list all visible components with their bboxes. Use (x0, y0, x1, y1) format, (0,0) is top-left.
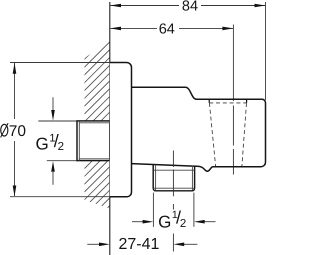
hidden line cone left (209, 103, 215, 166)
extension line holder center (64) (232, 25, 234, 102)
label O70 (1, 123, 9, 137)
arrow inlet bottom (up) (52, 172, 54, 185)
arrowhead 64 right (222, 27, 233, 31)
wall hatch (66, 14, 130, 255)
inlet G1/2 extension top (38, 120, 77, 122)
arrowhead 64 left (110, 27, 121, 31)
arrow inlet top (down) (52, 97, 54, 112)
dimension line 84 (111, 5, 266, 7)
inlet thread lines (79, 121, 110, 161)
svg-text:2: 2 (58, 141, 64, 153)
holder socket rim right (246, 99, 248, 103)
arrow outlet G1/2 right (204, 221, 216, 223)
label G1/2 left (36, 131, 65, 154)
label G1/2 bottom (158, 207, 186, 231)
inlet fitting body (77, 121, 110, 161)
center line outlet (172, 151, 174, 210)
arrowhead O70 top (13, 63, 17, 74)
outlet thread root lines (153, 165, 194, 191)
svg-text:64: 64 (159, 22, 175, 38)
inlet G1/2 extension bottom (47, 160, 77, 162)
outlet spigot outline (153, 165, 194, 191)
arrowhead 84 left (110, 4, 121, 8)
svg-text:2: 2 (180, 218, 186, 230)
svg-text:G: G (158, 212, 171, 231)
wall line (109, 2, 111, 255)
body top outline (132, 87, 266, 171)
hidden line socket top (209, 102, 246, 104)
extension line flange top (O70) (10, 62, 112, 64)
svg-text:27-41: 27-41 (118, 236, 159, 253)
center line holder cone (232, 106, 234, 175)
svg-text:84: 84 (182, 0, 198, 15)
outlet G1/2 extension left (152, 193, 154, 227)
arrowhead 84 right (255, 4, 266, 8)
extension line flange bottom (O70) (10, 196, 112, 198)
holder socket rim left (208, 99, 210, 103)
arrow outlet G1/2 left (132, 221, 144, 223)
svg-text:G: G (36, 135, 49, 154)
dimension line O70 (14, 63, 16, 196)
flange outline (110, 63, 132, 197)
dimension 27-41 (87, 243, 99, 245)
dimension line 64 (111, 27, 234, 29)
svg-text:70: 70 (9, 123, 27, 140)
hidden line cone right (242, 103, 247, 166)
extension line right edge (84) (265, 2, 267, 100)
center line outlet lower (172, 234, 174, 252)
arrowhead O70 bottom (13, 186, 17, 197)
outlet G1/2 extension right (193, 193, 195, 227)
